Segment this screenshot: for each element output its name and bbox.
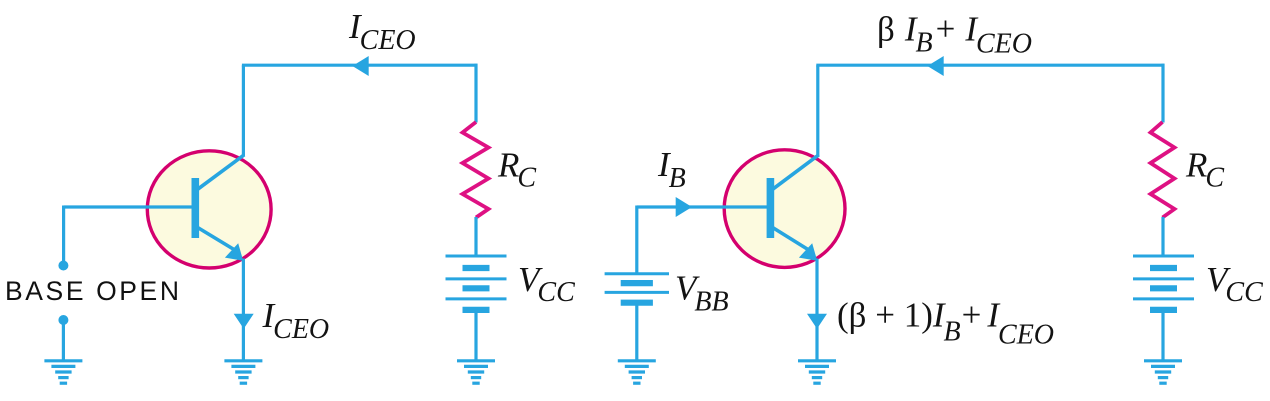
wire: top rail down to resistor [474,64,477,123]
transistor Q2 emitter arrowhead [799,243,817,260]
ground (below V_CC left) [457,361,495,383]
transistor Q2 collector stroke [771,155,819,191]
transistor Q2 body (circle) [724,150,845,268]
ground (below emitter Q2) [798,361,836,383]
resistor R_C (left) [463,122,489,218]
wire: V_BB to ground [635,305,638,360]
svg-text:βIB+ICEO: βIB+ICEO [877,10,1032,60]
transistor Q2 emitter stroke [771,227,808,250]
current arrow (beta+1)I_B + I_CEO on emitter wire (pointing down) [807,314,827,329]
ground (below emitter Q1) [224,361,262,383]
svg-text:BASE OPEN: BASE OPEN [5,276,182,306]
node: open base terminal dot (upper) [58,261,68,271]
svg-text:(β + 1)IB+ICEO: (β + 1)IB+ICEO [837,296,1054,351]
wire: emitter vertical to ground (right) [815,259,818,361]
svg-text:ICEO: ICEO [262,296,330,345]
wire: top rail (horizontal) [242,64,478,67]
svg-text:VBB: VBB [675,269,729,318]
wire: base lead with I_B (horizontal into Q2) [637,205,771,208]
svg-text:VCC: VCC [518,260,575,308]
wire: dot to ground [62,321,65,360]
current arrow I_B on base lead (pointing right) [676,197,692,217]
svg-text:IB: IB [657,145,686,194]
transistor Q1 body (circle) [147,151,271,268]
ground (below V_CC right) [1144,361,1182,383]
wire: open-base vertical drop [62,206,65,264]
wire: collector to top rail (vertical) [242,65,245,156]
svg-text:ICEO: ICEO [348,7,416,56]
battery V_CC (left, 3 cells) [446,256,507,310]
wire: top rail down to resistor (right) [1161,64,1164,123]
transistor Q1 emitter arrowhead [225,243,243,260]
wire: resistor to battery (right) [1161,217,1164,257]
wire: battery to ground (right) [1161,310,1164,360]
svg-text:VCC: VCC [1206,260,1263,308]
battery V_BB (2 cells) [605,274,669,303]
resistor R_C (right) [1151,122,1175,218]
svg-text:RC: RC [1185,146,1224,194]
svg-text:RC: RC [497,146,536,194]
wire: top rail (horizontal, right circuit) [816,64,1164,67]
ground (below V_BB) [618,361,656,383]
battery V_CC (right, 3 cells) [1133,256,1194,310]
ground (below BASE OPEN) [44,361,82,383]
current arrow I_CEO on top rail (pointing left) [352,56,368,76]
current arrow I_CEO on emitter wire (pointing down) [234,314,254,329]
node: ground-side terminal dot (lower) [58,315,68,325]
wire: base lead (horizontal into Q1) [64,205,196,208]
transistor Q1 base bar [192,178,200,238]
wire: base rail down to V_BB [635,206,638,275]
transistor Q1 emitter stroke [196,227,234,250]
wire: collector to top rail (vertical, right circuit) [816,65,819,156]
wire: resistor to battery [474,217,477,257]
current arrow beta I_B + I_CEO on top rail (pointing left) [927,56,943,76]
transistor Q1 collector stroke [196,155,244,191]
transistor Q2 base bar [767,178,775,238]
wire: battery to ground [474,310,477,360]
wire: emitter vertical to ground [242,259,245,361]
